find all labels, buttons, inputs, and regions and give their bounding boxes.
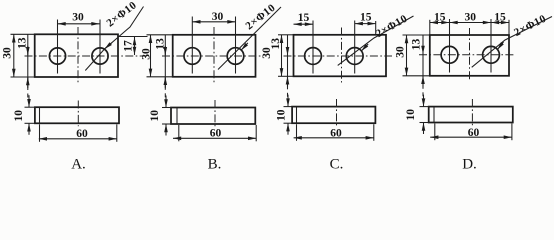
svg-text:15: 15	[360, 11, 372, 23]
length dimension 60 of D	[430, 136, 512, 138]
extension of front top edge to left A	[25, 106, 36, 108]
top dimension 30 of A	[58, 23, 100, 25]
svg-text:2×Φ10: 2×Φ10	[104, 0, 139, 30]
extension line D	[508, 20, 510, 35]
thickness dimension 10 of D : lower arrow	[423, 123, 425, 135]
top dimension 30 of D	[450, 22, 492, 24]
length dimension 60 of A	[39, 138, 117, 140]
extension of front top edge to left C	[284, 106, 294, 108]
dimension 13 tail dash of C	[287, 93, 289, 97]
top dimension 15 of D	[491, 22, 509, 24]
extension line D	[429, 20, 431, 35]
front view vertical centerline B	[214, 100, 216, 126]
svg-text:30: 30	[72, 12, 84, 24]
thickness dimension 10 of B : upper arrow	[165, 96, 167, 108]
leader line 2&#215;&#934;10 of A	[85, 7, 143, 71]
dimension 13 line of B	[164, 35, 166, 90]
leader line 2&#215;&#934;10 of D	[472, 17, 552, 68]
svg-text:A.: A.	[71, 157, 86, 173]
right extension line for 60 of B	[255, 125, 257, 141]
extension of top edge to left D	[403, 34, 430, 36]
extension of bottom edge to left A	[11, 76, 35, 78]
plate top view outline B	[173, 35, 256, 77]
svg-text:15: 15	[434, 11, 446, 23]
thickness dimension 10 of C : lower arrow	[287, 123, 289, 135]
left extension line for 60 of A	[39, 124, 41, 142]
extension of bottom edge to left D	[403, 75, 430, 77]
svg-text:17: 17	[122, 40, 134, 52]
vertical centerline mid plate A	[77, 27, 79, 83]
svg-text:10: 10	[13, 110, 25, 122]
extension of top edge to left B	[147, 34, 173, 36]
extension of bottom edge to left B	[147, 76, 173, 78]
extension of front bottom edge to left A	[25, 122, 36, 124]
dimension 13 of A : arrow up to bottom edge	[27, 77, 29, 88]
length dimension 60 of C	[294, 137, 374, 139]
thickness dimension 10 of A : upper arrow	[28, 95, 30, 107]
extension of front top edge to left D	[420, 106, 430, 108]
dimension 13 of B : arrow down to centerline	[164, 46, 166, 55]
top dimension 15 of C	[294, 23, 314, 25]
dimension 13 line of D	[422, 35, 424, 89]
left extension line for 60 of D	[434, 124, 436, 141]
svg-text:13: 13	[270, 38, 282, 50]
svg-text:60: 60	[210, 127, 222, 139]
hole 1 vertical centerline / extension A	[57, 20, 59, 74]
leader line 2&#215;&#934;10 of C	[338, 16, 414, 65]
leader arrowhead of A	[105, 42, 113, 49]
svg-text:30: 30	[395, 46, 407, 58]
doubled left edge line front view D	[433, 107, 435, 123]
svg-text:60: 60	[468, 127, 480, 139]
hole 1 vertical centerline / extension D	[449, 19, 451, 73]
svg-text:15: 15	[494, 11, 506, 23]
thickness dimension 10 of C : upper arrow	[287, 95, 289, 107]
thickness dimension 10 of D : upper arrow	[423, 95, 425, 107]
plate front view outline D	[429, 107, 513, 123]
svg-text:13: 13	[17, 37, 29, 49]
leader arrowhead of D	[497, 42, 503, 50]
svg-text:30: 30	[2, 47, 14, 59]
dimension 13 tail dash of B	[164, 93, 166, 97]
extension of front bottom edge to left B	[162, 123, 172, 125]
hole 1 of D	[441, 46, 458, 63]
left extension line for 60 of B	[178, 125, 180, 141]
right extension line for 60 of D	[511, 124, 513, 141]
left height dimension 30 of B	[150, 35, 152, 77]
extension of front bottom edge to left C	[284, 122, 294, 124]
dimension 13 line of C	[287, 35, 289, 90]
svg-text:60: 60	[330, 127, 342, 139]
hole 2 of C	[346, 48, 363, 65]
leader arrowhead of B	[241, 43, 248, 50]
svg-text:13: 13	[155, 38, 167, 50]
doubled left edge line front view B	[176, 108, 178, 125]
plate top view outline D	[430, 35, 509, 76]
right dimension 17 of A	[134, 37, 136, 55]
svg-text:10: 10	[276, 109, 288, 121]
right extension line for 60 of C	[373, 124, 375, 141]
plate front view outline A	[35, 107, 119, 123]
svg-text:10: 10	[405, 109, 417, 121]
front view vertical centerline C	[336, 99, 338, 126]
extension of bottom edge to left C	[278, 75, 294, 77]
top dimension 15 of D	[430, 22, 450, 24]
extension of top edge to right A	[118, 36, 148, 38]
plate front view outline B	[171, 108, 255, 125]
hole 2 vertical centerline / extension C	[354, 21, 356, 74]
vertical centerline mid plate C	[341, 28, 343, 83]
dimension 13 of D : arrow up to bottom edge	[422, 76, 424, 87]
svg-text:30: 30	[212, 11, 224, 23]
svg-text:60: 60	[76, 128, 88, 140]
extension of front top edge to left B	[162, 107, 172, 109]
hole 2 vertical centerline / extension B	[235, 17, 237, 74]
dimension 13 line of A	[27, 34, 29, 90]
dimension 13 of B : arrow up to bottom edge	[164, 77, 166, 88]
thickness dimension 10 of A : lower arrow	[28, 123, 30, 135]
dimension 13 tail dash of A	[27, 94, 29, 98]
doubled left edge line front view A	[39, 107, 41, 123]
svg-text:D.: D.	[462, 157, 477, 173]
extension of top edge to left A	[11, 33, 35, 35]
hole 2 of D	[483, 46, 500, 63]
extension of front bottom edge to left D	[420, 122, 430, 124]
extension line C	[375, 21, 377, 35]
top dimension 15 of C	[355, 23, 376, 25]
horizontal centerline through holes B	[162, 55, 262, 57]
hole 1 of A	[49, 48, 65, 64]
horizontal centerline through holes D	[419, 54, 514, 56]
plate top view outline C	[294, 35, 387, 77]
top dimension 30 of B	[192, 21, 235, 23]
vertical centerline mid plate D	[469, 28, 471, 82]
front view vertical centerline A	[77, 101, 79, 127]
left height dimension 30 of D	[406, 35, 408, 76]
svg-text:2×Φ10: 2×Φ10	[512, 13, 548, 39]
hole 1 of C	[305, 48, 322, 65]
extension of top edge to left C	[278, 34, 294, 36]
right extension line for 60 of A	[116, 124, 118, 142]
vertical centerline mid plate B	[213, 27, 215, 83]
horizontal centerline through holes C	[284, 55, 393, 57]
svg-text:10: 10	[149, 110, 161, 122]
thickness dimension 10 of B : lower arrow	[165, 124, 167, 136]
svg-text:C.: C.	[330, 157, 344, 173]
svg-text:13: 13	[411, 39, 423, 51]
svg-text:15: 15	[298, 12, 310, 24]
plate front view outline C	[292, 107, 375, 124]
svg-text:B.: B.	[208, 157, 222, 173]
dimension 13 of A : arrow down to centerline	[27, 46, 29, 55]
dimension 13 of C : arrow down to centerline	[287, 46, 289, 55]
hole 1 vertical centerline / extension B	[191, 17, 193, 74]
left height dimension 30 of C	[281, 35, 283, 77]
left height dimension 30 of A	[13, 34, 15, 77]
hole 2 vertical centerline / extension A	[99, 20, 101, 74]
dimension 13 of C : arrow up to bottom edge	[287, 76, 289, 87]
length dimension 60 of B	[173, 137, 256, 139]
front view vertical centerline D	[471, 99, 473, 125]
dimension 13 of D : arrow down to centerline	[422, 45, 424, 54]
hole 2 of B	[227, 48, 244, 65]
doubled left edge line front view C	[296, 107, 298, 124]
leader line 2&#215;&#934;10 of B	[218, 7, 281, 70]
hole 1 vertical centerline / extension C	[312, 21, 314, 74]
svg-text:2×Φ10: 2×Φ10	[374, 13, 410, 41]
svg-text:30: 30	[141, 48, 153, 60]
horizontal centerline through holes A	[25, 55, 148, 57]
hole 2 vertical centerline / extension D	[490, 19, 492, 73]
left extension line for 60 of C	[296, 124, 298, 141]
dimension 13 tail dash of D	[422, 92, 424, 96]
leader arrowhead of C	[361, 44, 368, 51]
svg-text:30: 30	[465, 11, 477, 23]
hole 2 of A	[92, 48, 108, 64]
hole 1 of B	[184, 48, 201, 65]
plate top view outline A	[35, 34, 118, 77]
